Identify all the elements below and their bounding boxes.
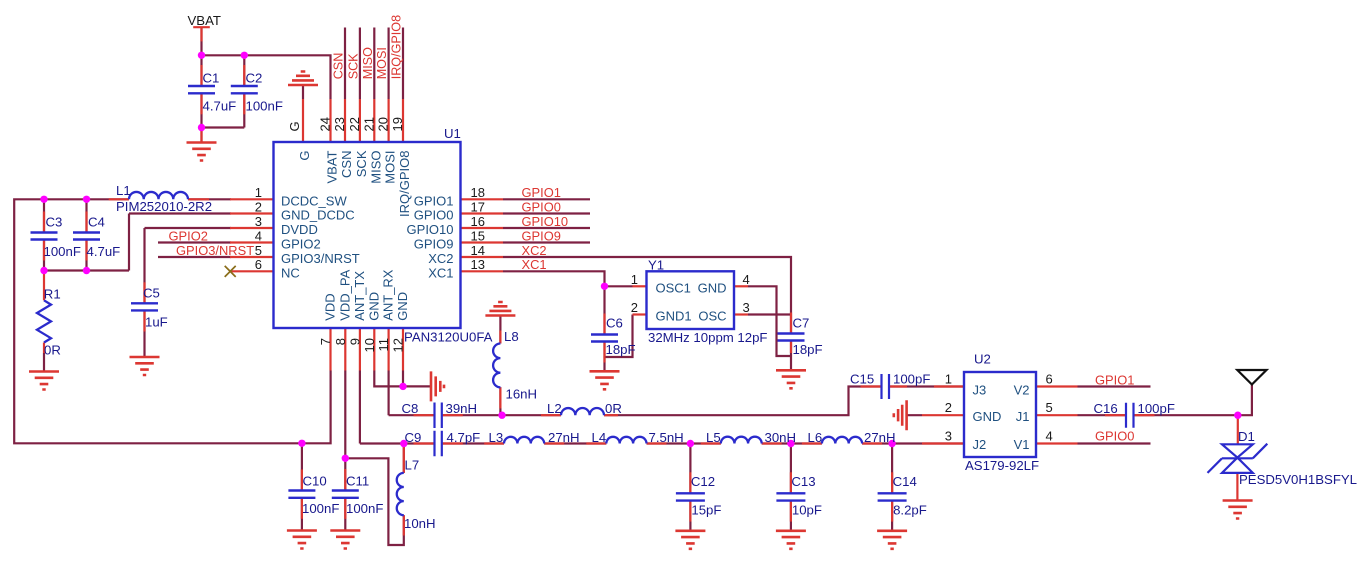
svg-text:22: 22 (347, 117, 362, 131)
svg-text:7.5nH: 7.5nH (649, 430, 684, 445)
svg-text:GPIO9: GPIO9 (414, 237, 454, 252)
svg-text:16: 16 (471, 214, 485, 229)
svg-text:GPIO10: GPIO10 (407, 222, 454, 237)
svg-text:4.7pF: 4.7pF (447, 430, 481, 445)
svg-text:17: 17 (471, 199, 485, 214)
svg-text:GND: GND (698, 280, 727, 295)
svg-text:CSN: CSN (332, 53, 346, 80)
svg-text:R1: R1 (44, 286, 61, 301)
svg-text:V2: V2 (1014, 383, 1030, 398)
svg-text:1: 1 (255, 185, 262, 200)
svg-text:C7: C7 (793, 315, 810, 330)
svg-text:U1: U1 (444, 126, 461, 141)
svg-text:ANT_RX: ANT_RX (381, 269, 396, 321)
svg-text:L2: L2 (547, 401, 562, 416)
svg-text:GPIO1: GPIO1 (522, 185, 561, 200)
svg-text:2: 2 (631, 300, 638, 315)
svg-text:100nF: 100nF (246, 98, 283, 113)
svg-text:3: 3 (743, 300, 750, 315)
svg-text:GPIO3/NRST: GPIO3/NRST (281, 251, 360, 266)
svg-text:19: 19 (390, 117, 405, 131)
svg-text:C9: C9 (405, 430, 422, 445)
svg-text:AS179-92LF: AS179-92LF (965, 458, 1039, 473)
svg-text:GPIO10: GPIO10 (522, 214, 569, 229)
svg-text:VBAT: VBAT (188, 13, 221, 28)
svg-text:4: 4 (255, 228, 262, 243)
svg-text:20: 20 (376, 117, 391, 131)
svg-text:27nH: 27nH (548, 430, 580, 445)
svg-text:J2: J2 (973, 437, 987, 452)
svg-text:C5: C5 (143, 286, 160, 301)
svg-text:CSN: CSN (339, 151, 354, 178)
svg-text:0R: 0R (605, 401, 622, 416)
svg-text:D1: D1 (1238, 429, 1255, 444)
svg-text:1: 1 (631, 272, 638, 287)
svg-text:GPIO0: GPIO0 (414, 208, 454, 223)
svg-text:15: 15 (471, 228, 485, 243)
svg-text:L4: L4 (592, 430, 607, 445)
svg-text:ANT_TX: ANT_TX (352, 271, 367, 321)
svg-text:VDD_PA: VDD_PA (337, 269, 352, 320)
svg-text:C6: C6 (606, 315, 623, 330)
svg-text:100pF: 100pF (1138, 401, 1175, 416)
svg-text:C2: C2 (246, 70, 263, 85)
svg-text:VBAT: VBAT (325, 150, 340, 183)
svg-text:G: G (297, 151, 312, 161)
svg-text:8: 8 (333, 338, 348, 345)
svg-text:1uF: 1uF (145, 314, 168, 329)
svg-text:C8: C8 (402, 401, 419, 416)
svg-text:GPIO0: GPIO0 (1095, 429, 1134, 444)
svg-text:C3: C3 (46, 214, 63, 229)
svg-text:C4: C4 (88, 214, 105, 229)
svg-text:4.7uF: 4.7uF (203, 98, 237, 113)
svg-text:32MHz 10ppm 12pF: 32MHz 10ppm 12pF (648, 330, 767, 345)
svg-text:6: 6 (1046, 372, 1053, 387)
svg-text:L7: L7 (405, 457, 420, 472)
svg-text:27nH: 27nH (864, 430, 896, 445)
svg-text:C16: C16 (1094, 401, 1118, 416)
svg-text:C12: C12 (691, 474, 715, 489)
svg-text:Y1: Y1 (648, 257, 664, 272)
svg-text:XC1: XC1 (428, 265, 453, 280)
svg-text:21: 21 (361, 117, 376, 131)
svg-text:15pF: 15pF (691, 503, 721, 518)
svg-text:SCK: SCK (354, 150, 369, 177)
svg-text:GPIO0: GPIO0 (522, 199, 561, 214)
svg-text:GND_DCDC: GND_DCDC (281, 208, 355, 223)
svg-text:10pF: 10pF (792, 503, 822, 518)
svg-text:PIM252010-2R2: PIM252010-2R2 (116, 199, 212, 214)
svg-text:J3: J3 (973, 383, 987, 398)
svg-text:3: 3 (255, 214, 262, 229)
svg-text:C11: C11 (346, 474, 369, 489)
svg-text:11: 11 (376, 338, 391, 352)
svg-text:30nH: 30nH (765, 430, 797, 445)
svg-text:5: 5 (255, 243, 262, 258)
svg-text:GPIO3/NRST: GPIO3/NRST (176, 243, 254, 258)
svg-text:6: 6 (255, 257, 262, 272)
svg-text:U2: U2 (974, 351, 991, 366)
svg-text:PAN3120U0FA: PAN3120U0FA (404, 330, 493, 345)
svg-text:GND: GND (395, 292, 410, 321)
svg-text:3: 3 (945, 429, 952, 444)
svg-text:13: 13 (471, 257, 485, 272)
svg-text:C14: C14 (893, 474, 917, 489)
svg-text:7: 7 (318, 338, 333, 345)
svg-text:C15: C15 (850, 371, 874, 386)
svg-text:100nF: 100nF (44, 244, 81, 259)
svg-text:2: 2 (255, 199, 262, 214)
svg-text:IRQ/GPIO8: IRQ/GPIO8 (397, 151, 412, 217)
svg-text:10: 10 (362, 338, 377, 352)
svg-text:5: 5 (1046, 400, 1053, 415)
svg-text:100nF: 100nF (302, 501, 339, 516)
svg-text:XC1: XC1 (522, 257, 547, 272)
svg-text:14: 14 (471, 243, 485, 258)
svg-text:18pF: 18pF (606, 342, 636, 357)
svg-text:4: 4 (1046, 429, 1053, 444)
svg-text:GPIO2: GPIO2 (169, 228, 208, 243)
svg-text:100nF: 100nF (346, 501, 383, 516)
svg-text:10nH: 10nH (404, 516, 436, 531)
svg-text:L8: L8 (504, 329, 519, 344)
svg-text:NC: NC (281, 265, 300, 280)
svg-text:100pF: 100pF (893, 371, 930, 386)
svg-text:GPIO1: GPIO1 (1095, 372, 1134, 387)
svg-text:L3: L3 (489, 430, 504, 445)
svg-text:24: 24 (318, 117, 333, 131)
svg-text:OSC: OSC (698, 309, 726, 324)
svg-text:8.2pF: 8.2pF (893, 503, 927, 518)
svg-text:C1: C1 (203, 70, 220, 85)
svg-text:XC2: XC2 (428, 251, 453, 266)
svg-text:SCK: SCK (346, 53, 360, 79)
svg-text:VDD: VDD (323, 293, 338, 320)
svg-text:4: 4 (743, 272, 750, 287)
svg-text:MISO: MISO (361, 47, 375, 79)
svg-text:9: 9 (347, 338, 362, 345)
svg-text:GND: GND (366, 292, 381, 321)
svg-text:V1: V1 (1014, 437, 1030, 452)
svg-text:L6: L6 (808, 430, 823, 445)
svg-text:G: G (287, 121, 302, 131)
svg-text:1: 1 (945, 372, 952, 387)
svg-text:OSC1: OSC1 (656, 280, 691, 295)
svg-text:39nH: 39nH (446, 401, 478, 416)
svg-text:MOSI: MOSI (383, 151, 398, 184)
svg-text:0R: 0R (44, 343, 61, 358)
svg-text:18: 18 (471, 185, 485, 200)
svg-text:C13: C13 (791, 474, 815, 489)
svg-text:MOSI: MOSI (375, 47, 389, 79)
svg-text:XC2: XC2 (522, 243, 547, 258)
svg-text:J1: J1 (1016, 409, 1030, 424)
svg-text:L5: L5 (706, 430, 721, 445)
svg-text:MISO: MISO (368, 151, 383, 184)
svg-text:DCDC_SW: DCDC_SW (281, 193, 347, 208)
svg-text:C10: C10 (303, 474, 327, 489)
svg-text:GND: GND (973, 409, 1002, 424)
svg-text:IRQ/GPIO8: IRQ/GPIO8 (390, 15, 404, 79)
svg-text:16nH: 16nH (506, 387, 538, 402)
svg-text:DVDD: DVDD (281, 222, 318, 237)
svg-text:PESD5V0H1BSFYL: PESD5V0H1BSFYL (1239, 472, 1357, 487)
svg-text:23: 23 (332, 117, 347, 131)
svg-text:GND1: GND1 (656, 309, 692, 324)
svg-text:GPIO2: GPIO2 (281, 237, 321, 252)
svg-text:GPIO1: GPIO1 (414, 193, 454, 208)
svg-text:2: 2 (945, 400, 952, 415)
svg-text:4.7uF: 4.7uF (87, 244, 121, 259)
svg-text:12: 12 (391, 338, 406, 352)
svg-text:L1: L1 (116, 183, 131, 198)
svg-text:18pF: 18pF (793, 342, 823, 357)
svg-text:GPIO9: GPIO9 (522, 228, 561, 243)
